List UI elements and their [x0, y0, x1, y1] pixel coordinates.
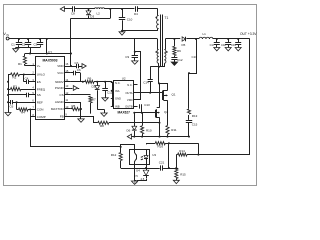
wire R1 to pin1 — [25, 65, 36, 67]
svg-text:Q1: Q1 — [172, 93, 176, 97]
ground C17 — [214, 48, 220, 51]
wire OUTB to Q2 gate — [133, 107, 155, 114]
wire R14 to node — [176, 155, 178, 168]
capacitor C21 — [159, 161, 179, 171]
capacitor C3 — [34, 39, 44, 48]
svg-text:R10: R10 — [146, 128, 152, 132]
wire R5 ground rail — [80, 102, 82, 119]
ground opto emitter — [131, 165, 137, 185]
svg-text:L2: L2 — [97, 12, 101, 16]
svg-text:R12: R12 — [111, 153, 117, 157]
capacitor C10 — [119, 9, 133, 31]
diode D5 — [182, 37, 197, 47]
capacitor C19 — [231, 39, 241, 48]
wire sense divider top — [197, 143, 199, 155]
resistor R7 — [71, 95, 96, 114]
wire AGND stub — [71, 102, 81, 104]
U1 pin 11 AGND — [55, 98, 71, 104]
resistor R15 — [175, 168, 186, 180]
capacitor C11 — [102, 82, 112, 98]
svg-text:PGND: PGND — [55, 86, 65, 90]
wire Q1 drain — [158, 82, 168, 90]
svg-text:FREQ: FREQ — [37, 87, 46, 91]
svg-text:U2: U2 — [122, 76, 126, 80]
wire drive to U2 inputs — [111, 82, 114, 107]
svg-text:R9: R9 — [177, 49, 181, 53]
capacitor C18 — [221, 39, 231, 48]
svg-text:C3: C3 — [34, 43, 38, 47]
svg-text:C16: C16 — [192, 55, 198, 59]
capacitor C1 — [11, 39, 22, 48]
resistor R11 — [166, 126, 177, 137]
svg-text:ES: ES — [37, 80, 41, 84]
U1 pin 10 MAXTON — [51, 105, 71, 111]
svg-text:D2: D2 — [92, 85, 96, 89]
capacitor C4 — [24, 75, 31, 85]
wire VIN top rail — [9, 38, 158, 40]
svg-text:D6: D6 — [127, 128, 131, 132]
wire Q1 source down — [167, 100, 169, 125]
U2 pin 1 N.C. — [111, 81, 121, 85]
wire bias winding return — [121, 30, 158, 32]
op-amp U1 MAX5003 box — [36, 51, 65, 120]
wire Q2 source down — [159, 117, 161, 136]
svg-text:IN: IN — [7, 34, 10, 37]
svg-text:C2: C2 — [22, 43, 26, 47]
resistor R9 — [173, 38, 181, 56]
svg-text:C19: C19 — [231, 43, 236, 47]
resistor R6 — [85, 76, 97, 83]
resistor R14 — [176, 149, 198, 156]
resistor R16 — [146, 142, 198, 149]
wire output to feedback — [199, 39, 250, 155]
inductor L2 — [89, 8, 111, 16]
svg-text:R2: R2 — [13, 76, 17, 80]
junction primary bottom — [158, 66, 160, 68]
svg-text:CS: CS — [59, 93, 63, 97]
wire U2 VDD feed — [135, 52, 141, 100]
capacitor C7 — [71, 61, 81, 68]
ground R15 — [173, 180, 179, 183]
svg-text:C12: C12 — [177, 58, 183, 62]
svg-text:R5: R5 — [72, 104, 76, 108]
node PGND arrow B — [71, 86, 79, 91]
svg-text:VCC: VCC — [57, 71, 64, 75]
node OUT label — [240, 32, 257, 36]
node NDRV arrow A — [81, 64, 87, 69]
ground C12 — [171, 62, 177, 65]
op-amp U2 MAX627 box — [114, 76, 134, 114]
wire UVLO divider rail — [7, 75, 9, 113]
U1 pin 5 SS — [30, 91, 41, 97]
capacitor C5 — [8, 93, 30, 97]
svg-text:C9: C9 — [125, 55, 129, 59]
capacitor D4 series — [134, 6, 158, 16]
wire FB jog — [71, 117, 98, 123]
junction input rail — [18, 38, 48, 40]
U1 pin 8 COMP — [30, 113, 46, 119]
wire TL431 node row — [121, 165, 160, 169]
node bias winding connector arrow — [60, 7, 64, 12]
svg-text:R8: R8 — [100, 124, 104, 128]
svg-text:UVLO: UVLO — [37, 73, 46, 77]
svg-text:C7: C7 — [75, 61, 79, 65]
svg-text:V+: V+ — [37, 64, 41, 68]
wire caps to V+ rail — [29, 48, 31, 55]
resistor R1 — [18, 54, 27, 67]
wire OUTA to Q1 gate — [138, 92, 164, 94]
transformer T1 primary winding — [155, 39, 158, 67]
capacitor C2 — [22, 39, 32, 48]
svg-text:GND: GND — [115, 97, 121, 101]
svg-text:AGND: AGND — [55, 100, 65, 104]
svg-text:C10: C10 — [127, 18, 133, 22]
svg-text:C4: C4 — [25, 77, 29, 81]
svg-text:C21: C21 — [159, 161, 165, 165]
wire secondary snubber drop — [188, 39, 197, 75]
wire CON control line — [31, 110, 121, 147]
svg-text:R1: R1 — [18, 62, 22, 66]
resistor R10 — [141, 113, 152, 137]
U2 pin 8 N.C. — [127, 83, 137, 87]
svg-text:R13: R13 — [192, 114, 198, 118]
ground UVLO rail — [5, 113, 11, 116]
svg-text:OUTA: OUTA — [125, 91, 132, 95]
U1 pin 7 CON — [30, 106, 43, 112]
capacitor C13 — [140, 103, 151, 108]
capacitor C6b VCC — [71, 68, 81, 75]
svg-text:C13: C13 — [144, 103, 150, 107]
svg-text:Q2: Q2 — [164, 110, 168, 114]
ground R5 rail — [78, 119, 84, 122]
U1 pin 3 ES — [30, 78, 41, 84]
resistor R12 — [111, 147, 122, 168]
wire cap bottom rail — [16, 47, 40, 49]
svg-text:VDD: VDD — [57, 64, 64, 68]
svg-text:MAX627: MAX627 — [117, 110, 130, 114]
capacitor C9 vin bypass — [125, 39, 138, 61]
wire VIN drop to V+ rail — [46, 39, 48, 55]
svg-text:N.C.: N.C. — [127, 83, 133, 87]
ground D2 — [97, 109, 107, 116]
svg-text:R4: R4 — [21, 111, 25, 115]
wire return rail — [132, 136, 190, 138]
wire NDRV row — [71, 81, 85, 83]
svg-text:R15: R15 — [180, 173, 186, 177]
junction snubber2 — [195, 38, 197, 40]
U1 pin 9 FB — [60, 113, 71, 119]
border frame — [4, 5, 257, 186]
svg-text:REF: REF — [37, 100, 43, 104]
svg-text:OUTB: OUTB — [125, 105, 133, 109]
U1 pin 14 NDRV — [55, 78, 71, 84]
ground C18 — [225, 48, 231, 51]
svg-text:C6: C6 — [77, 68, 81, 72]
resistor R2 — [8, 73, 30, 80]
optocoupler U3 LED — [141, 149, 148, 165]
node VIN label — [3, 31, 9, 37]
svg-text:C17: C17 — [210, 43, 215, 47]
junction C10 — [121, 8, 123, 10]
svg-text:C6: C6 — [10, 105, 14, 109]
U1 pin 13 PGND — [55, 84, 71, 90]
ground bias filter — [119, 31, 125, 35]
wire VCC cap to gate rail — [80, 73, 82, 82]
svg-text:INB: INB — [115, 105, 120, 109]
capacitor C17 — [210, 39, 220, 48]
U2 pin 3 GND — [111, 97, 121, 101]
wire R16 feed — [168, 143, 170, 168]
capacitor C8 — [71, 6, 89, 16]
svg-text:U4: U4 — [136, 169, 140, 173]
U2 pin 4 INB — [111, 105, 120, 109]
svg-text:C14: C14 — [143, 81, 149, 85]
U1 pin 15 VCC — [57, 69, 71, 75]
diode D3 — [86, 9, 94, 19]
svg-text:L1: L1 — [203, 32, 207, 36]
resistor R3 — [8, 85, 30, 91]
svg-text:R7: R7 — [92, 98, 96, 102]
svg-text:U1: U1 — [48, 51, 52, 55]
ground C11 — [102, 98, 108, 101]
U1 pin 4 FREQ — [30, 85, 46, 91]
ground C9 — [132, 61, 138, 64]
input terminal — [6, 37, 9, 40]
svg-text:D4: D4 — [134, 12, 138, 16]
U1 pin 6 REF — [30, 98, 43, 104]
transformer T1 core — [161, 15, 169, 67]
svg-text:R11: R11 — [171, 128, 177, 132]
U2 pin 6 VDD — [127, 98, 138, 102]
svg-text:VDD: VDD — [127, 98, 133, 102]
shunt regulator U4 TL431 — [134, 168, 149, 185]
wire opto collector — [120, 145, 135, 149]
ground C19 — [235, 48, 241, 51]
svg-text:CON: CON — [37, 108, 44, 112]
svg-text:OUT +3.3V: OUT +3.3V — [240, 32, 257, 36]
capacitor C15 — [186, 115, 198, 138]
diode D2 — [92, 82, 100, 109]
transistor Q1 — [163, 90, 176, 101]
U2 pin 7 OUTA — [125, 91, 137, 95]
wire top rail right — [110, 8, 134, 10]
resistor R4 — [17, 102, 32, 114]
svg-text:6.7: 6.7 — [134, 181, 138, 185]
wire top rail left — [64, 8, 72, 10]
wire L2 bypass drop — [109, 8, 111, 18]
resistor R13 — [187, 73, 197, 118]
junction output caps — [216, 38, 239, 40]
svg-text:FB: FB — [60, 115, 64, 119]
resistor R8 — [98, 121, 159, 128]
transformer T1 bias winding — [155, 9, 158, 31]
optocoupler U3 transistor — [134, 149, 136, 165]
ground input caps — [13, 48, 19, 53]
svg-text:T1: T1 — [165, 16, 169, 20]
capacitor C6 — [8, 100, 30, 109]
node return rail arrow — [127, 134, 131, 139]
wire secondary to output rail — [165, 38, 180, 40]
U1 pin 12 CS — [59, 91, 70, 97]
svg-text:R6: R6 — [88, 76, 92, 80]
wire TL431 anode — [135, 179, 147, 181]
wire V+ rail — [25, 53, 72, 55]
svg-text:N.C.: N.C. — [115, 81, 121, 85]
U2 pin 2 INA — [111, 89, 120, 93]
svg-text:C8: C8 — [71, 12, 75, 16]
capacitor C12 — [171, 56, 182, 62]
transistor Q2 — [156, 108, 169, 119]
svg-text:MAXTON: MAXTON — [51, 107, 64, 111]
wire Q2 drain — [159, 67, 160, 108]
capacitor C14 — [143, 67, 159, 93]
svg-text:SS: SS — [37, 93, 41, 97]
U1 pin 2 UVLO — [30, 71, 46, 77]
wire VDD bootstrap rail — [70, 18, 110, 67]
U2 pin 5 OUTB — [125, 105, 137, 109]
svg-text:C1: C1 — [11, 43, 15, 47]
svg-text:U3: U3 — [152, 153, 156, 157]
svg-text:NDRV: NDRV — [55, 80, 63, 84]
U1 pin 16 VDD — [57, 62, 71, 68]
U1 pin 1 V+ — [30, 62, 41, 68]
svg-text:C15: C15 — [192, 123, 198, 127]
svg-text:R14: R14 — [179, 149, 185, 153]
svg-text:2.5: 2.5 — [134, 174, 138, 178]
svg-text:R16: R16 — [158, 145, 164, 149]
svg-text:D5: D5 — [182, 43, 186, 47]
inductor L1 — [197, 32, 250, 39]
junction D3 top — [88, 8, 90, 10]
wire gate drive rail — [96, 81, 112, 83]
resistor R5 — [71, 104, 81, 110]
svg-text:COMP: COMP — [37, 115, 46, 119]
svg-text:MAX5003: MAX5003 — [42, 58, 57, 62]
svg-text:C18: C18 — [221, 43, 226, 47]
diode D6 — [127, 113, 137, 137]
svg-text:INA: INA — [115, 89, 120, 93]
transformer T1 secondary winding — [159, 39, 168, 67]
svg-text:R3: R3 — [13, 85, 17, 89]
optocoupler U3 box — [130, 150, 157, 165]
